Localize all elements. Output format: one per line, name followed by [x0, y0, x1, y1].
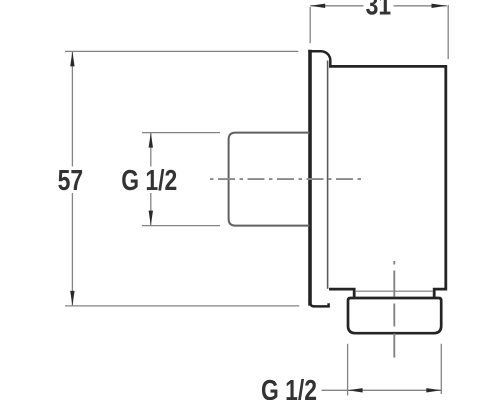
wall flange left face: [308, 50, 312, 306]
svg-text:G 1/2: G 1/2: [261, 374, 317, 400]
dim 31 line: [310, 5, 447, 7]
body outline: [329, 66, 446, 297]
inlet dim arrow up: [149, 133, 153, 148]
dim 31 extension line right: [447, 5, 449, 59]
vertical centerline: [393, 261, 395, 358]
outlet dim extension line right: [440, 344, 442, 394]
inlet port: [229, 133, 310, 226]
svg-text:G 1/2: G 1/2: [121, 163, 177, 196]
outlet dim line: [322, 389, 442, 391]
outlet dim arrow left: [348, 388, 363, 392]
inlet dim extension line top: [142, 132, 220, 134]
outlet dim arrow right: [426, 388, 441, 392]
horizontal centerline: [210, 178, 362, 180]
svg-text:31: 31: [366, 0, 391, 21]
dim 57 line: [71, 51, 73, 306]
body-to-nut joint line: [356, 290, 433, 292]
dim 57 arrow down: [70, 291, 74, 306]
outlet nut: [348, 298, 441, 333]
dim 31 extension line left: [309, 7, 311, 43]
outlet dim extension line left: [347, 344, 349, 396]
flange bottom rolled edge: [310, 299, 329, 306]
inlet dim extension line bottom: [142, 225, 220, 227]
dim 57 extension line bottom: [65, 305, 299, 307]
flange top rolled edge: [308, 51, 330, 66]
dim 57 arrow up: [70, 51, 74, 66]
inlet dim arrow down: [149, 211, 153, 226]
dim 31 arrow right: [432, 4, 447, 8]
flange inner edge: [327, 61, 329, 289]
svg-text:57: 57: [58, 163, 83, 196]
inlet dim line: [150, 133, 152, 226]
dim 57 extension line top: [65, 50, 298, 52]
dim 31 arrow left: [310, 4, 325, 8]
